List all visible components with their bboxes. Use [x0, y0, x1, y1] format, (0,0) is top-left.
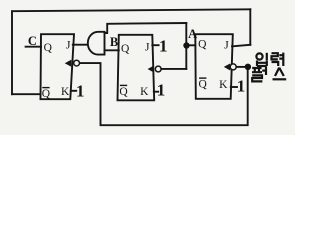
svg-text:J: J: [224, 39, 229, 51]
wire: node A vertical: [185, 23, 187, 69]
wire: AND gate G1 output to J of U1: [73, 44, 87, 46]
svg-text:1: 1: [76, 82, 85, 101]
svg-text:Q: Q: [199, 79, 208, 91]
wire: feedback right vertical: [249, 9, 251, 45]
clock wedge of U2: [148, 66, 153, 72]
wire: input pulse node to clock bubble of U3: [236, 66, 245, 68]
svg-text:J: J: [66, 40, 71, 52]
flip-flop U1 box (output C): [41, 34, 75, 99]
svg-text:Q: Q: [44, 42, 53, 54]
wire: B output stub of U2 into G1 bottom input: [105, 49, 119, 51]
clock bubble of U2: [155, 66, 161, 72]
svg-text:Q: Q: [119, 86, 128, 98]
wire: clock of U1 from input pulse bottom rail: [80, 63, 248, 125]
svg-text:1: 1: [159, 37, 168, 56]
clock wedge of U1: [66, 60, 71, 66]
glyph 펄: [252, 68, 262, 72]
wire: Q-bar output of U1 going left: [12, 93, 41, 95]
K3 tie stub: [231, 86, 237, 88]
wire: node A to Q of U3: [186, 44, 195, 46]
svg-text:Q: Q: [198, 39, 207, 51]
svg-text:1: 1: [237, 77, 246, 96]
K2 tie stub: [154, 91, 158, 93]
svg-text:K: K: [61, 86, 70, 98]
flip-flop U2 box (output B): [118, 35, 155, 101]
flip-flop U3 box (output A): [195, 34, 233, 99]
svg-text:1: 1: [157, 81, 166, 100]
wire: feedback left vertical: [11, 11, 13, 94]
clock bubble of U1: [74, 60, 80, 66]
clock bubble of U3: [230, 64, 236, 70]
svg-text:Q: Q: [42, 88, 51, 100]
wire: clock of U2 from node A: [161, 68, 186, 70]
svg-text:K: K: [140, 86, 149, 98]
wire: G1 top input from node A rail: [105, 23, 187, 33]
glyph 입: [256, 53, 262, 59]
junction input pulse node dot: [245, 64, 251, 70]
svg-text:J: J: [145, 41, 150, 53]
svg-text:K: K: [219, 79, 228, 91]
wire: feedback top rail: [12, 9, 250, 11]
svg-text:B: B: [110, 35, 118, 49]
J2 tie stub: [152, 44, 158, 46]
AND gate G1: [88, 32, 105, 55]
clock wedge of U3: [225, 64, 230, 70]
K1 tie stub: [71, 90, 76, 92]
wire: C output stub of U1: [26, 46, 41, 48]
junction node A dot: [183, 42, 189, 48]
wire: J input of U3 fed from feedback: [232, 45, 250, 47]
svg-text:Q: Q: [121, 43, 130, 55]
net label: input pulse (Korean 입력 펄스) hand-drawn glyphs: [252, 53, 286, 82]
glyph 스: [275, 68, 284, 76]
glyph 력: [272, 53, 278, 59]
svg-text:A: A: [188, 27, 197, 41]
svg-text:C: C: [28, 34, 37, 48]
